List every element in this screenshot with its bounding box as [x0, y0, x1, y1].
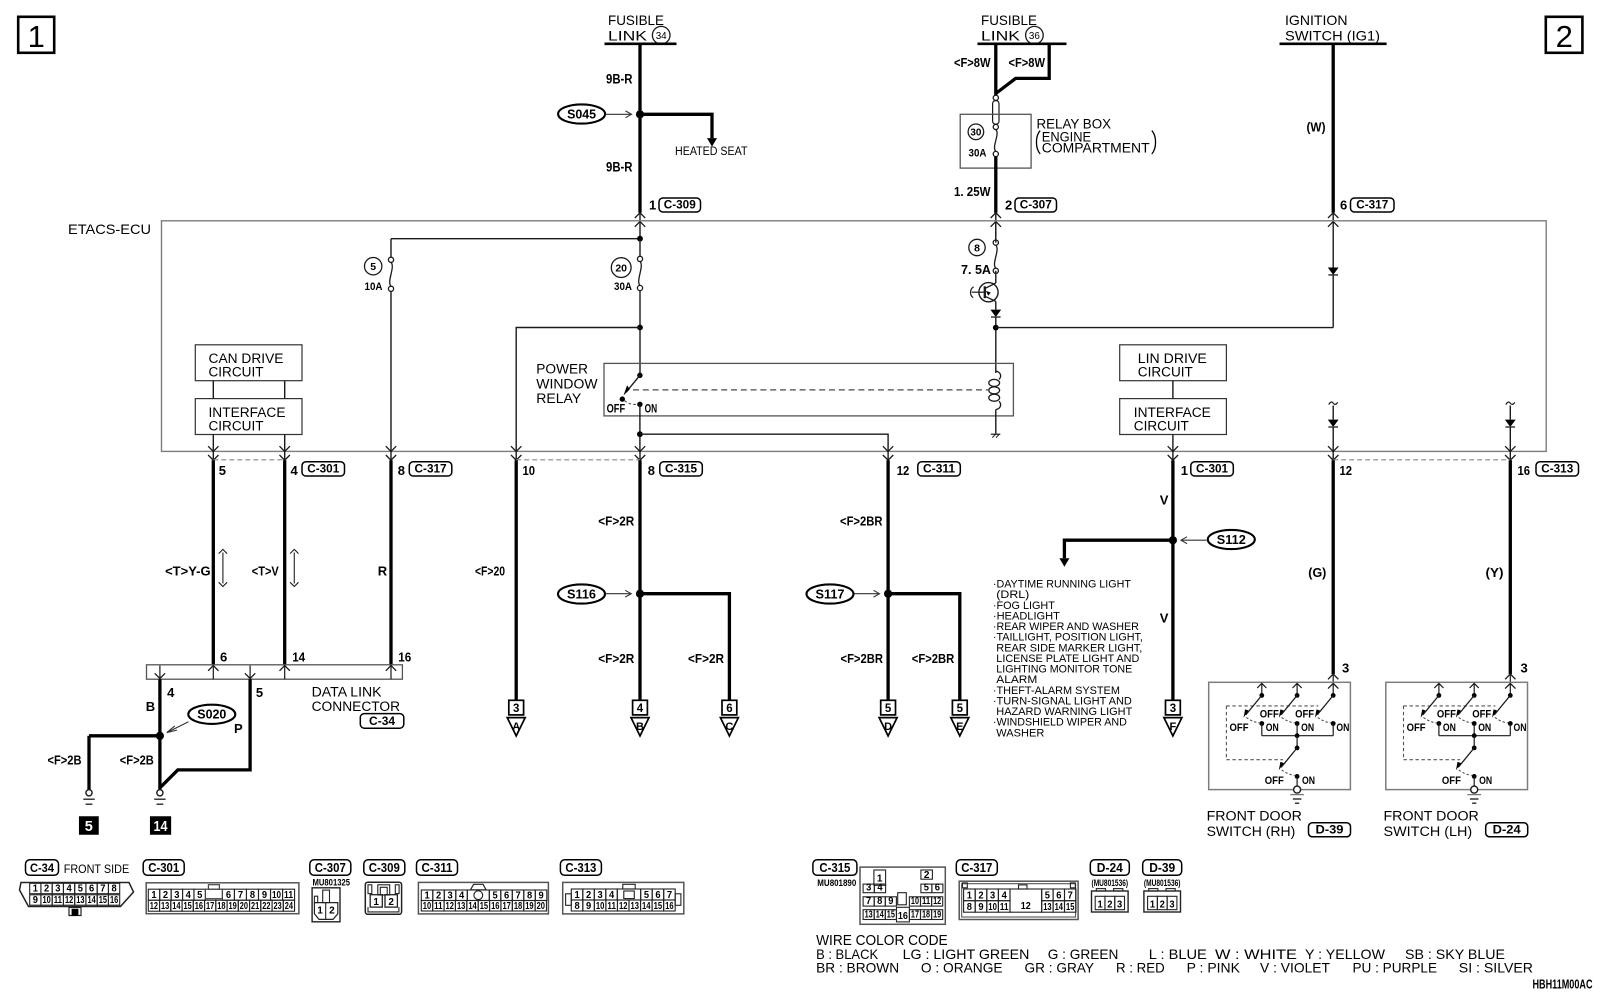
branch to terminal E — [888, 594, 960, 701]
svg-text:8: 8 — [574, 901, 580, 912]
diode D1 — [995, 301, 997, 309]
svg-text:5: 5 — [85, 819, 93, 835]
svg-text:<F>2BR: <F>2BR — [912, 651, 955, 666]
svg-text:E: E — [956, 721, 963, 733]
svg-text:2: 2 — [978, 891, 984, 902]
svg-text:4: 4 — [609, 890, 615, 901]
svg-text:9: 9 — [978, 902, 984, 913]
svg-text:MU801890: MU801890 — [817, 878, 856, 888]
svg-text:2: 2 — [329, 905, 335, 916]
CAN drive circuit box — [195, 345, 302, 381]
wire pin2 to fuse 8 — [995, 222, 997, 240]
svg-text:ON: ON — [1478, 722, 1491, 734]
ground symbol left — [86, 790, 92, 796]
svg-text:7: 7 — [515, 890, 521, 901]
svg-text:1. 25W: 1. 25W — [954, 184, 991, 199]
svg-text:7: 7 — [100, 884, 106, 895]
svg-text:2: 2 — [44, 884, 50, 895]
svg-text:11: 11 — [434, 901, 443, 912]
wire <F>20 pin10 to terminal A — [515, 460, 518, 700]
svg-text:<F>2R: <F>2R — [688, 651, 725, 666]
svg-text:OFF: OFF — [1265, 775, 1284, 787]
svg-text:RELAY: RELAY — [536, 391, 581, 406]
svg-text:12: 12 — [897, 463, 910, 478]
svg-text:2: 2 — [1005, 198, 1012, 213]
svg-text:2: 2 — [1160, 900, 1166, 911]
svg-text:3: 3 — [1521, 661, 1528, 676]
junction to pin 10 branch — [637, 325, 643, 331]
relay coil — [996, 371, 1001, 379]
svg-text:8: 8 — [648, 463, 655, 478]
svg-text:9B-R: 9B-R — [606, 160, 633, 175]
svg-text:C-301: C-301 — [307, 464, 340, 476]
interface circuit box left — [195, 399, 302, 435]
door switch (RH) ON bus — [1262, 735, 1333, 737]
wire pin1 to fuse 20 — [639, 239, 641, 257]
DLC pin 14 entry — [280, 666, 290, 671]
DLC pin 16 entry — [386, 666, 396, 671]
transistor Q1 — [979, 283, 998, 302]
svg-text:5: 5 — [644, 890, 650, 901]
svg-text:8: 8 — [974, 242, 980, 254]
svg-text:MU801325: MU801325 — [313, 878, 351, 888]
svg-text:7: 7 — [866, 896, 872, 907]
svg-text:OFF: OFF — [1472, 708, 1491, 720]
svg-text:CIRCUIT: CIRCUIT — [209, 418, 264, 433]
svg-text:11: 11 — [922, 896, 930, 907]
svg-text:CIRCUIT: CIRCUIT — [209, 365, 264, 380]
svg-text:36: 36 — [1029, 31, 1040, 42]
svg-text:4: 4 — [186, 890, 192, 901]
terminal 3/F — [1166, 700, 1181, 715]
svg-text:10: 10 — [596, 901, 605, 912]
dashed pairing pin12-pin16 — [1333, 459, 1510, 461]
fuse 8 7.5A — [993, 240, 998, 245]
svg-text:3: 3 — [1170, 703, 1176, 715]
connector D-39 pinout — [1143, 860, 1182, 876]
svg-text:C-317: C-317 — [961, 861, 992, 875]
svg-text:1: 1 — [649, 198, 656, 213]
svg-text:16: 16 — [398, 649, 411, 664]
terminal 5/D — [881, 700, 896, 715]
svg-text:S112: S112 — [1217, 533, 1246, 547]
svg-text:A: A — [512, 721, 520, 733]
connector C-309 pinout — [364, 860, 405, 876]
svg-text:GR : GRAY: GR : GRAY — [1025, 960, 1095, 976]
svg-text:23: 23 — [274, 901, 283, 912]
connector D-24 pinout — [1090, 860, 1129, 876]
branch to pin 12 C-311 — [640, 434, 888, 451]
svg-text:D-24: D-24 — [1493, 824, 1522, 836]
svg-text:ON: ON — [1514, 722, 1527, 734]
svg-text:4: 4 — [66, 884, 72, 895]
svg-text:17: 17 — [502, 901, 511, 912]
terminal 6/C — [722, 700, 737, 715]
svg-text:C: C — [725, 721, 733, 733]
svg-text:8: 8 — [250, 890, 256, 901]
svg-text:10: 10 — [523, 463, 536, 478]
svg-text:5: 5 — [492, 890, 498, 901]
ETACS-ECU box — [162, 221, 1547, 452]
relay mechanical dashed link — [633, 389, 989, 391]
svg-text:15: 15 — [184, 901, 193, 912]
wires between CAN boxes — [212, 381, 214, 399]
svg-text:C-315: C-315 — [665, 464, 698, 476]
svg-text:17: 17 — [911, 909, 919, 920]
svg-text:DATA LINK: DATA LINK — [312, 685, 382, 700]
svg-text:D-24: D-24 — [1097, 861, 1123, 875]
svg-text:6: 6 — [504, 890, 510, 901]
svg-text:(Y): (Y) — [1486, 565, 1504, 580]
relay coil wire to ground — [995, 410, 997, 434]
connector C-307 pinout — [310, 860, 351, 876]
svg-text:2: 2 — [586, 890, 592, 901]
branch arrow to lighting systems — [1064, 540, 1173, 558]
svg-text:13: 13 — [161, 901, 170, 912]
svg-text:7: 7 — [1068, 891, 1074, 902]
svg-text:C-301: C-301 — [148, 861, 179, 875]
svg-text:1: 1 — [151, 890, 157, 901]
svg-text:LINK: LINK — [981, 27, 1021, 43]
svg-text:18: 18 — [514, 901, 523, 912]
svg-text:BR : BROWN: BR : BROWN — [816, 960, 899, 976]
svg-text:<F>20: <F>20 — [475, 564, 505, 579]
svg-text:(G): (G) — [1308, 565, 1326, 580]
terminal 3/A — [509, 700, 524, 715]
svg-text:OFF: OFF — [1442, 775, 1461, 787]
connector C-317 pinout — [956, 860, 997, 876]
svg-text:HBH11M00AC: HBH11M00AC — [1533, 977, 1593, 991]
door switch (LH) ON bus — [1439, 735, 1510, 737]
door switch (LH) contact arm 1 — [1434, 683, 1443, 688]
relay box (engine compartment) outline — [960, 114, 1031, 168]
svg-text:4: 4 — [1002, 891, 1008, 902]
svg-text:12: 12 — [1340, 463, 1353, 478]
splice S116 — [558, 584, 605, 603]
svg-text:16: 16 — [491, 901, 500, 912]
svg-text:1: 1 — [424, 890, 430, 901]
wire P from DLC pin5 — [160, 679, 250, 787]
svg-text:<F>8W: <F>8W — [1009, 55, 1046, 70]
svg-text:15: 15 — [480, 901, 489, 912]
svg-text:P : PINK: P : PINK — [1187, 960, 1241, 976]
svg-text:O : ORANGE: O : ORANGE — [921, 960, 1003, 976]
svg-text:D: D — [884, 721, 892, 733]
DLC pin 6 entry — [208, 666, 218, 671]
svg-text:2: 2 — [163, 890, 169, 901]
heated seat branch wire — [640, 114, 712, 138]
svg-text:F: F — [1170, 721, 1177, 733]
svg-text:OFF: OFF — [1295, 708, 1314, 720]
door switch (LH) contact arm 3 — [1509, 683, 1511, 695]
svg-text:V: V — [1160, 493, 1169, 508]
svg-text:9B-R: 9B-R — [606, 72, 633, 87]
connector C-311 pinout — [417, 860, 458, 876]
svg-text:9: 9 — [538, 890, 544, 901]
fusible link element in relay box — [993, 95, 998, 100]
svg-text:1: 1 — [1181, 463, 1188, 478]
svg-text:18: 18 — [217, 901, 226, 912]
svg-text:12: 12 — [619, 901, 628, 912]
svg-text:ON: ON — [645, 403, 658, 415]
svg-text:PU : PURPLE: PU : PURPLE — [1353, 960, 1438, 976]
svg-text:C-34: C-34 — [30, 863, 55, 875]
svg-text:1: 1 — [1150, 900, 1156, 911]
svg-text:3: 3 — [55, 884, 61, 895]
svg-text:6: 6 — [726, 703, 732, 715]
svg-text:8: 8 — [111, 884, 117, 895]
relay switch — [637, 373, 642, 378]
wire <F>2R pin8 C-315 down — [638, 460, 641, 700]
svg-text:14: 14 — [876, 909, 884, 920]
wire to pin 1 C-301 — [1172, 435, 1174, 452]
svg-text:FRONT SIDE: FRONT SIDE — [64, 864, 130, 876]
svg-text:5: 5 — [924, 883, 930, 894]
branch to ground 5 — [89, 734, 160, 737]
wire from pin1 junction to fuse 5 branch — [391, 238, 640, 240]
ground ref 14 — [151, 817, 171, 834]
input circuit stub with diode at x=1510 — [1506, 402, 1515, 405]
page marker 2 — [1546, 17, 1583, 53]
wire <T>Y-G pin5 to DLC pin6 — [212, 460, 215, 665]
svg-text:6: 6 — [89, 884, 95, 895]
svg-text:CONNECTOR: CONNECTOR — [312, 699, 401, 714]
svg-text:1: 1 — [28, 19, 45, 54]
svg-text:19: 19 — [229, 901, 238, 912]
input circuit stub with diode at x=1333 — [1329, 402, 1338, 405]
svg-text:1: 1 — [1097, 900, 1103, 911]
svg-text:12: 12 — [65, 895, 74, 906]
svg-text:3: 3 — [597, 890, 603, 901]
svg-text:SWITCH (LH): SWITCH (LH) — [1384, 824, 1473, 839]
connector C-301 pinout — [143, 860, 184, 876]
svg-text:12: 12 — [933, 896, 941, 907]
branch to terminal C — [640, 594, 729, 701]
svg-text:1: 1 — [33, 884, 39, 895]
diode on ignition feed — [1328, 268, 1339, 275]
fuse 5 10A — [388, 257, 393, 262]
svg-text:IGNITION: IGNITION — [1285, 12, 1348, 28]
svg-text:4: 4 — [877, 883, 883, 894]
svg-text:(MU801536): (MU801536) — [1144, 878, 1181, 888]
svg-text:11: 11 — [54, 895, 63, 906]
svg-text:C-317: C-317 — [1356, 200, 1388, 212]
svg-text:15: 15 — [99, 895, 108, 906]
svg-text:4: 4 — [291, 463, 299, 478]
svg-text:C-309: C-309 — [664, 200, 696, 212]
power window relay box — [604, 363, 1013, 416]
door switch (LH) ground — [1473, 776, 1475, 786]
LIN drive circuit box — [1120, 345, 1227, 381]
svg-text:15: 15 — [887, 909, 895, 920]
data link connector box — [147, 665, 403, 679]
svg-text:FRONT DOOR: FRONT DOOR — [1207, 809, 1303, 824]
connector C-313 pinout — [560, 860, 601, 876]
wire <T>V pin4 to DLC pin14 — [283, 460, 286, 665]
svg-text:R: R — [378, 564, 388, 579]
svg-text:13: 13 — [1043, 902, 1052, 913]
svg-text:7. 5A: 7. 5A — [961, 263, 991, 277]
door switch (RH) contact arm 2 — [1293, 683, 1302, 688]
svg-text:3: 3 — [513, 703, 519, 715]
svg-text:13: 13 — [76, 895, 85, 906]
svg-text:C-34: C-34 — [369, 716, 396, 728]
svg-text:4: 4 — [167, 685, 175, 700]
front door switch (RH) box — [1209, 682, 1351, 789]
splice S045 — [558, 104, 605, 123]
svg-text:5: 5 — [197, 890, 203, 901]
svg-text:<F>2B: <F>2B — [120, 753, 154, 768]
svg-text:C-311: C-311 — [422, 861, 453, 875]
svg-text:9: 9 — [262, 890, 268, 901]
door switch (RH) contact arm 1 — [1257, 683, 1266, 688]
svg-text:14: 14 — [87, 895, 96, 906]
interface circuit box right — [1120, 399, 1227, 435]
svg-text:SWITCH (IG1): SWITCH (IG1) — [1285, 27, 1380, 43]
svg-text:S045: S045 — [567, 107, 596, 121]
svg-text:2: 2 — [1556, 19, 1573, 54]
wire 9B-R from fusible link 34 — [638, 44, 641, 213]
fuse 20 30A — [637, 256, 642, 261]
svg-text:16: 16 — [110, 895, 119, 906]
svg-text:C-317: C-317 — [415, 464, 447, 476]
fusible link 34 bus bar — [605, 42, 677, 45]
wire <F>8W right branch — [996, 44, 1049, 94]
door switch (RH) lower switch — [1296, 736, 1298, 748]
wires to pins 5 and 4 — [212, 435, 214, 452]
svg-text:6: 6 — [226, 890, 232, 901]
svg-text:V: V — [1160, 611, 1169, 626]
wire junction to diode at ignition line — [996, 327, 1333, 329]
svg-text:S020: S020 — [197, 708, 226, 722]
svg-text:10: 10 — [272, 890, 281, 901]
svg-text:C-313: C-313 — [1541, 464, 1573, 476]
svg-text:16: 16 — [195, 901, 204, 912]
svg-text:C-313: C-313 — [565, 861, 596, 875]
svg-text:4: 4 — [637, 703, 644, 715]
svg-text:<F>8W: <F>8W — [954, 55, 991, 70]
svg-text:SI : SILVER: SI : SILVER — [1459, 960, 1533, 976]
svg-text:20: 20 — [615, 262, 627, 274]
svg-text:B: B — [146, 699, 155, 714]
svg-text:1: 1 — [574, 890, 580, 901]
connector C-315 pinout — [813, 860, 857, 876]
svg-text:WINDOW: WINDOW — [536, 376, 597, 391]
junction S045 — [636, 110, 644, 118]
svg-text:7: 7 — [667, 890, 673, 901]
dashed pairing pin10-pin8 — [516, 459, 640, 461]
svg-text:3: 3 — [1169, 900, 1175, 911]
svg-text:3: 3 — [174, 890, 180, 901]
svg-text:ON: ON — [1302, 775, 1315, 787]
svg-text:CIRCUIT: CIRCUIT — [1134, 418, 1189, 433]
wire <F>2BR pin12 down — [886, 460, 889, 700]
svg-text:CIRCUIT: CIRCUIT — [1138, 365, 1193, 380]
svg-text:14: 14 — [468, 901, 477, 912]
svg-text:C-311: C-311 — [923, 464, 956, 476]
svg-text:2: 2 — [388, 897, 394, 908]
svg-text:11: 11 — [284, 890, 293, 901]
svg-text:13: 13 — [865, 909, 873, 920]
svg-text:30: 30 — [970, 128, 981, 139]
svg-text:5: 5 — [885, 703, 892, 715]
svg-text:6: 6 — [1340, 198, 1347, 213]
wire V pin1 down — [1171, 460, 1174, 700]
svg-text:9: 9 — [888, 896, 894, 907]
svg-text:FRONT DOOR: FRONT DOOR — [1384, 809, 1480, 824]
svg-text:10: 10 — [988, 902, 997, 913]
svg-text:ON: ON — [1443, 722, 1456, 734]
svg-text:4: 4 — [459, 890, 465, 901]
svg-text:OFF: OFF — [1437, 708, 1456, 720]
DLC pin 5 exit — [245, 673, 255, 678]
dashed pairing pin5-pin4 — [213, 459, 284, 461]
svg-text:V : VIOLET: V : VIOLET — [1260, 960, 1330, 976]
svg-text:HEATED SEAT: HEATED SEAT — [675, 146, 748, 158]
svg-text:14: 14 — [1055, 902, 1064, 913]
svg-text:OFF: OFF — [1407, 722, 1426, 734]
svg-text:13: 13 — [457, 901, 466, 912]
splice S112 — [1208, 530, 1255, 549]
svg-text:6: 6 — [655, 890, 661, 901]
svg-text:13: 13 — [631, 901, 640, 912]
svg-text:COMPARTMENT: COMPARTMENT — [1042, 141, 1150, 156]
svg-text:2: 2 — [924, 870, 930, 881]
door switch (RH) dashed linkage — [1226, 705, 1318, 707]
door switch (RH) contact arm 3 — [1332, 683, 1334, 695]
svg-text:5: 5 — [957, 703, 964, 715]
svg-text:10: 10 — [911, 896, 919, 907]
svg-text:24: 24 — [285, 901, 294, 912]
svg-text:20: 20 — [537, 901, 546, 912]
svg-text:8: 8 — [527, 890, 533, 901]
door switch (RH) ground — [1296, 776, 1298, 786]
svg-text:WASHER: WASHER — [996, 727, 1044, 739]
wire between LIN boxes — [1172, 381, 1174, 399]
svg-text:FUSIBLE: FUSIBLE — [981, 12, 1037, 28]
svg-text:<F>2BR: <F>2BR — [841, 651, 884, 666]
svg-text:(MU801536): (MU801536) — [1092, 878, 1129, 888]
ignition switch bus bar — [1280, 42, 1387, 45]
svg-text:C-315: C-315 — [819, 861, 850, 875]
svg-text:<T>Y-G: <T>Y-G — [165, 564, 211, 579]
svg-text:6: 6 — [935, 883, 941, 894]
svg-text:14: 14 — [292, 649, 306, 664]
svg-text:ETACS-ECU: ETACS-ECU — [68, 221, 151, 237]
svg-text:11: 11 — [1000, 902, 1009, 913]
svg-text:<F>2R: <F>2R — [598, 651, 635, 666]
wire fuse 20 to relay — [639, 291, 641, 376]
double arrow right — [293, 553, 295, 584]
svg-text:S117: S117 — [816, 587, 845, 601]
svg-text:3: 3 — [1117, 900, 1123, 911]
svg-text:10: 10 — [42, 895, 51, 906]
svg-text:R : RED: R : RED — [1116, 960, 1165, 976]
svg-text:C-309: C-309 — [369, 861, 400, 875]
svg-text:ON: ON — [1266, 722, 1279, 734]
svg-text:6: 6 — [1056, 891, 1062, 902]
svg-text:10: 10 — [423, 901, 432, 912]
svg-text:5: 5 — [78, 884, 84, 895]
svg-text:8: 8 — [398, 463, 405, 478]
svg-text:14: 14 — [642, 901, 651, 912]
svg-text:9: 9 — [33, 895, 39, 906]
svg-text:9: 9 — [586, 901, 592, 912]
svg-text:15: 15 — [1066, 902, 1075, 913]
terminal 4/B — [633, 700, 648, 715]
wire (W) from ignition switch — [1332, 44, 1335, 213]
wire <F>8W left — [994, 44, 997, 95]
